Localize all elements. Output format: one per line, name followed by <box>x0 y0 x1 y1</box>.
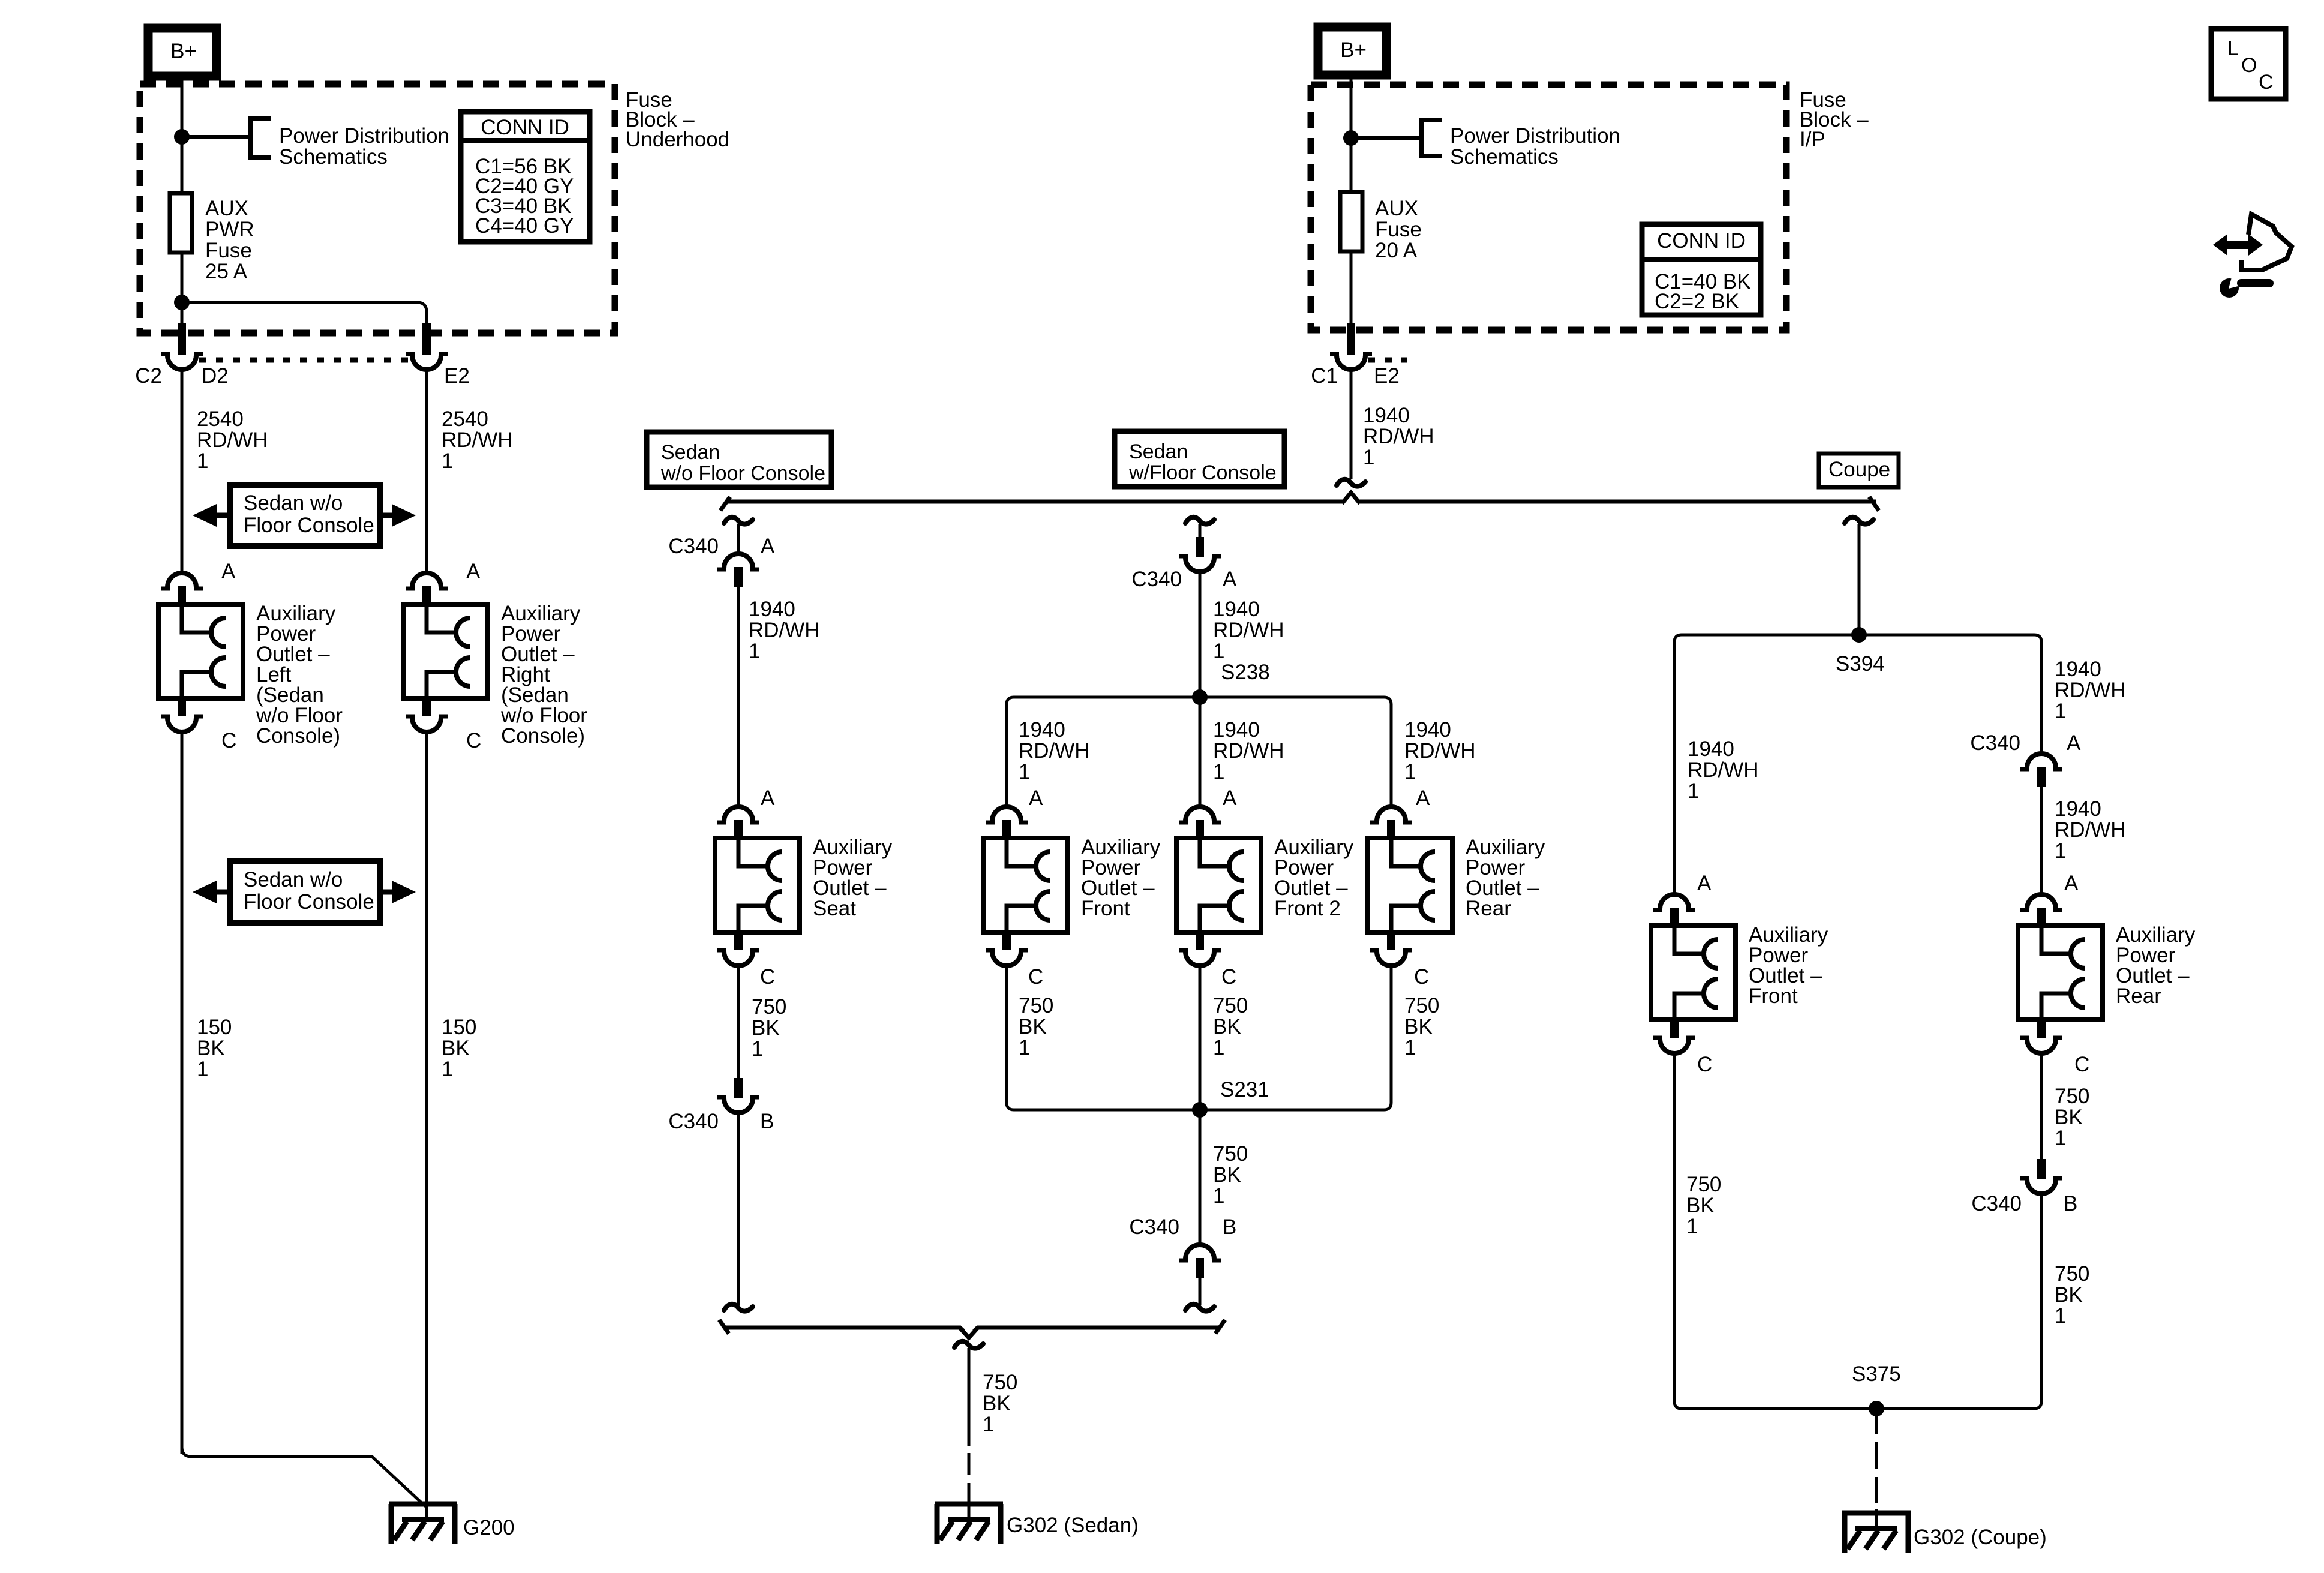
svg-text:1: 1 <box>1019 1036 1030 1059</box>
svg-text:C: C <box>466 729 481 752</box>
svg-text:AUX: AUX <box>1375 197 1418 220</box>
svg-text:RD/WH: RD/WH <box>2055 679 2126 702</box>
svg-text:1: 1 <box>1213 760 1224 784</box>
svg-text:Seat: Seat <box>813 897 856 920</box>
svg-text:C340: C340 <box>1971 1192 2022 1215</box>
svg-text:1: 1 <box>2055 700 2066 723</box>
svg-text:A: A <box>761 786 775 810</box>
svg-text:w/Floor Console: w/Floor Console <box>1128 461 1277 484</box>
svg-text:S394: S394 <box>1836 652 1885 676</box>
svg-text:1940: 1940 <box>1213 718 1260 742</box>
svg-text:20 A: 20 A <box>1375 239 1418 262</box>
svg-text:1: 1 <box>2055 1127 2066 1150</box>
svg-text:E2: E2 <box>444 364 470 388</box>
svg-text:G302 (Sedan): G302 (Sedan) <box>1007 1514 1139 1537</box>
svg-text:750: 750 <box>1213 1142 1248 1166</box>
svg-text:1: 1 <box>442 1058 453 1081</box>
svg-text:1: 1 <box>1363 446 1374 469</box>
svg-text:S375: S375 <box>1852 1362 1901 1386</box>
svg-text:1940: 1940 <box>2055 658 2101 681</box>
svg-text:PWR: PWR <box>205 218 254 241</box>
svg-text:A: A <box>1029 786 1043 810</box>
svg-text:BK: BK <box>2055 1106 2083 1129</box>
svg-text:Underhood: Underhood <box>626 128 729 151</box>
svg-text:1940: 1940 <box>1404 718 1451 742</box>
svg-text:B: B <box>760 1110 774 1133</box>
svg-text:A: A <box>1223 786 1237 810</box>
svg-text:A: A <box>1697 872 1712 895</box>
svg-text:RD/WH: RD/WH <box>1213 619 1284 642</box>
svg-text:1: 1 <box>1688 779 1699 803</box>
svg-text:RD/WH: RD/WH <box>1688 758 1759 782</box>
svg-text:Sedan w/o: Sedan w/o <box>244 868 343 891</box>
svg-text:C: C <box>1697 1053 1712 1076</box>
svg-text:L: L <box>2227 37 2239 60</box>
svg-text:1940: 1940 <box>749 598 795 621</box>
svg-text:1940: 1940 <box>2055 797 2101 821</box>
svg-text:BK: BK <box>1019 1015 1047 1038</box>
svg-text:750: 750 <box>2055 1262 2089 1286</box>
svg-text:2540: 2540 <box>442 407 488 431</box>
svg-text:Coupe: Coupe <box>1828 458 1890 481</box>
svg-text:Rear: Rear <box>1466 897 1511 920</box>
svg-text:750: 750 <box>2055 1085 2089 1108</box>
svg-text:1940: 1940 <box>1363 404 1410 427</box>
svg-text:1: 1 <box>2055 839 2066 863</box>
svg-text:1: 1 <box>197 1058 208 1081</box>
svg-text:B: B <box>2064 1192 2077 1215</box>
svg-text:750: 750 <box>983 1371 1017 1394</box>
svg-text:BK: BK <box>197 1037 225 1060</box>
svg-text:G302 (Coupe): G302 (Coupe) <box>1914 1526 2047 1549</box>
svg-text:750: 750 <box>752 995 786 1019</box>
svg-text:Console): Console) <box>256 724 340 748</box>
svg-text:1: 1 <box>1213 1036 1224 1059</box>
svg-text:C4=40 GY: C4=40 GY <box>475 214 574 238</box>
svg-text:Fuse: Fuse <box>205 239 252 262</box>
svg-text:C: C <box>1414 965 1429 989</box>
svg-text:1: 1 <box>1213 640 1224 663</box>
svg-text:BK: BK <box>983 1392 1011 1415</box>
svg-text:A: A <box>2064 872 2079 895</box>
svg-text:C1: C1 <box>1311 364 1338 388</box>
svg-text:A: A <box>1223 568 1237 591</box>
svg-text:BK: BK <box>442 1037 470 1060</box>
svg-text:RD/WH: RD/WH <box>1019 739 1090 763</box>
svg-text:S238: S238 <box>1221 661 1270 684</box>
svg-text:C340: C340 <box>1131 568 1182 591</box>
svg-text:C340: C340 <box>668 1110 719 1133</box>
svg-text:I/P: I/P <box>1800 128 1825 151</box>
svg-text:Floor Console: Floor Console <box>244 514 374 537</box>
svg-text:CONN ID: CONN ID <box>481 116 569 139</box>
svg-text:O: O <box>2241 54 2257 77</box>
svg-text:S231: S231 <box>1220 1078 1269 1101</box>
svg-text:Sedan: Sedan <box>661 441 720 464</box>
svg-text:1: 1 <box>1404 760 1416 784</box>
svg-text:150: 150 <box>442 1016 476 1039</box>
svg-text:C: C <box>2074 1053 2089 1076</box>
svg-text:Front: Front <box>1749 984 1798 1008</box>
svg-text:750: 750 <box>1404 994 1439 1017</box>
svg-text:RD/WH: RD/WH <box>2055 818 2126 842</box>
svg-text:C340: C340 <box>1129 1215 1179 1239</box>
svg-text:1: 1 <box>749 640 760 663</box>
svg-text:1: 1 <box>2055 1304 2066 1328</box>
svg-text:G200: G200 <box>463 1516 515 1539</box>
svg-text:C2=2 BK: C2=2 BK <box>1655 290 1739 313</box>
svg-text:C: C <box>221 729 236 752</box>
svg-text:1940: 1940 <box>1688 737 1734 761</box>
svg-text:RD/WH: RD/WH <box>749 619 820 642</box>
svg-text:1: 1 <box>1019 760 1030 784</box>
svg-text:C: C <box>1221 965 1236 989</box>
svg-text:Console): Console) <box>501 724 585 748</box>
svg-text:AUX: AUX <box>205 197 248 220</box>
svg-text:1: 1 <box>1404 1036 1416 1059</box>
svg-text:RD/WH: RD/WH <box>1363 425 1434 448</box>
svg-text:A: A <box>1416 786 1430 810</box>
svg-text:750: 750 <box>1213 994 1248 1017</box>
svg-text:B: B <box>1223 1215 1236 1239</box>
svg-text:Fuse: Fuse <box>1375 218 1422 241</box>
svg-text:Front: Front <box>1081 897 1130 920</box>
svg-text:1: 1 <box>983 1413 994 1436</box>
svg-text:1: 1 <box>442 449 453 473</box>
svg-text:BK: BK <box>1404 1015 1433 1038</box>
svg-text:w/o Floor Console: w/o Floor Console <box>660 462 825 485</box>
svg-text:A: A <box>466 560 481 583</box>
svg-text:150: 150 <box>197 1016 232 1039</box>
svg-text:C340: C340 <box>1970 731 2020 755</box>
svg-text:1940: 1940 <box>1213 598 1260 621</box>
svg-text:A: A <box>761 535 775 558</box>
svg-text:750: 750 <box>1686 1173 1721 1196</box>
svg-text:750: 750 <box>1019 994 1053 1017</box>
svg-text:1: 1 <box>1686 1215 1698 1238</box>
svg-text:RD/WH: RD/WH <box>1404 739 1476 763</box>
svg-text:RD/WH: RD/WH <box>442 428 513 452</box>
svg-text:BK: BK <box>1213 1163 1241 1187</box>
svg-text:Sedan: Sedan <box>1129 440 1188 463</box>
svg-text:Front 2: Front 2 <box>1274 897 1341 920</box>
svg-text:1: 1 <box>752 1037 763 1061</box>
svg-text:Floor Console: Floor Console <box>244 890 374 914</box>
svg-text:BK: BK <box>1213 1015 1241 1038</box>
svg-text:C: C <box>2259 71 2274 94</box>
svg-text:E2: E2 <box>1374 364 1400 388</box>
svg-text:Schematics: Schematics <box>279 145 388 169</box>
svg-text:BK: BK <box>752 1016 780 1040</box>
svg-text:Power Distribution: Power Distribution <box>1450 124 1620 148</box>
svg-text:25 A: 25 A <box>205 260 248 283</box>
svg-text:BK: BK <box>1686 1194 1715 1217</box>
svg-text:RD/WH: RD/WH <box>1213 739 1284 763</box>
svg-text:C: C <box>1028 965 1043 989</box>
svg-text:C2: C2 <box>135 364 162 388</box>
svg-text:CONN ID: CONN ID <box>1657 229 1746 253</box>
svg-text:A: A <box>221 560 236 583</box>
svg-text:RD/WH: RD/WH <box>197 428 268 452</box>
svg-text:C340: C340 <box>668 535 719 558</box>
svg-text:B+: B+ <box>170 40 197 63</box>
svg-text:D2: D2 <box>202 364 229 388</box>
svg-text:B+: B+ <box>1340 38 1367 62</box>
svg-text:Schematics: Schematics <box>1450 145 1559 169</box>
svg-text:2540: 2540 <box>197 407 244 431</box>
svg-text:1940: 1940 <box>1019 718 1065 742</box>
svg-text:Rear: Rear <box>2116 984 2161 1008</box>
svg-text:BK: BK <box>2055 1283 2083 1307</box>
svg-text:Power Distribution: Power Distribution <box>279 124 449 148</box>
svg-text:C: C <box>760 965 775 989</box>
svg-text:A: A <box>2067 731 2081 755</box>
svg-text:1: 1 <box>197 449 208 473</box>
svg-text:Sedan w/o: Sedan w/o <box>244 491 343 515</box>
svg-text:1: 1 <box>1213 1184 1224 1208</box>
